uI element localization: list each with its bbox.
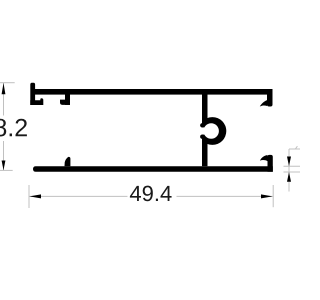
dimension text 8.2 (clipped at left edge) [0,119,27,137]
arrow up (thickness) [287,172,291,182]
screw boss lower lip [200,135,204,139]
extension line 49.4 left [28,185,30,208]
left upstand stub [30,83,35,105]
arrow down (8.2 dim) [2,161,6,171]
extension line 49.4 right [272,185,274,207]
central web upper segment [202,94,208,123]
right thickness dim vertical line [288,149,290,192]
second hook foot (points left) [60,100,70,105]
bottom tab fin [65,157,71,166]
right thickness ext line bottom [284,171,301,173]
screw boss annulus [199,117,227,145]
dimension text 49.4 [130,186,172,202]
mask: screw boss mouth [199,127,210,134]
white mask behind 8.2 text [0,116,29,142]
leader tick at shelf end [295,146,297,149]
extension line bottom-left (profile bottom) [0,169,13,171]
bottom-right claw (points left) [260,155,268,161]
arrow up (8.2 dim) [2,83,6,94]
central web lower segment [202,140,208,167]
arrow right (49.4 dim) [261,194,273,198]
top-right end wall [267,89,273,107]
dimension line 8.2 vertical [3,83,5,170]
bottom-right end wall [268,155,273,172]
arrow left (49.4 dim) [29,194,41,198]
extension line top-left (profile top) [0,82,15,84]
second hook stub [65,95,70,105]
arrow down (thickness) [287,157,291,167]
bottom wall of profile [33,166,273,172]
left stub foot (points right) [30,98,43,105]
top-right claw (points left) [260,100,267,106]
dimension line 49.4 [29,195,272,197]
white mask behind 49.4 text [128,184,177,203]
screw boss upper lip [200,123,204,127]
top wall of profile [33,89,273,95]
mask: straighten boss left edge [196,116,202,147]
right thickness ext line top [284,165,301,167]
right thickness dim shelf [289,148,300,150]
